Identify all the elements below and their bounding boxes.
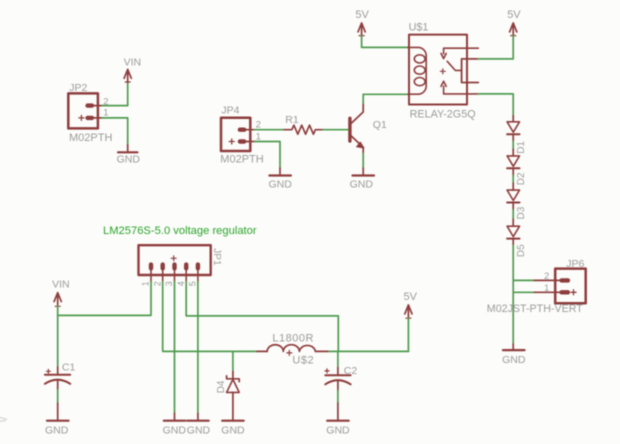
svg-text:VIN: VIN <box>52 278 70 290</box>
resistor R1 <box>284 114 323 134</box>
svg-text:RELAY-2G5Q: RELAY-2G5Q <box>410 109 476 121</box>
wire 5V to relay contact S <box>478 36 513 59</box>
wire 5V to relay coil top <box>362 36 408 48</box>
relay switch blade <box>447 61 461 70</box>
edge artifact (cropped symbol at left border) <box>0 418 7 422</box>
svg-text:JP2: JP2 <box>69 82 87 94</box>
wire JP4 pin2 to R1 <box>255 129 284 131</box>
pin 5 pad of JP1 <box>196 265 200 269</box>
ground below JP2 <box>117 145 141 166</box>
wire inductor to 5V <box>329 350 408 352</box>
wire R1 to Q1 base <box>323 129 348 131</box>
capacitor C2 <box>325 351 357 390</box>
supply VIN (top) <box>124 56 142 82</box>
wire JP4 pin1 to GND <box>255 142 280 169</box>
pin 2 pad of JP1 <box>160 265 164 269</box>
wire Q1 emitter to GND <box>362 154 364 169</box>
ground below C2 <box>326 403 350 437</box>
pin 3 pad of JP1 <box>172 265 176 269</box>
wire JP1 pin1 to VIN <box>58 282 151 316</box>
wire JP1 pin5 to GND <box>197 282 199 413</box>
pin 2 pad of JP4 <box>240 127 244 131</box>
svg-text:1: 1 <box>103 108 108 119</box>
inductor U$2 <box>257 333 329 367</box>
connector JP6 <box>487 258 586 315</box>
ground below C1 <box>45 403 69 437</box>
ground below JP4 <box>269 168 293 191</box>
pin 1 pad of JP2 <box>88 116 92 120</box>
svg-text:GND: GND <box>502 354 526 366</box>
svg-text:GND: GND <box>326 425 350 437</box>
supply 5V (top right) <box>507 9 521 36</box>
supply 5V (top left) <box>355 9 369 36</box>
polarity mark JP6 <box>571 290 576 295</box>
svg-text:L1800R: L1800R <box>272 333 314 345</box>
transistor Q1 <box>350 103 387 154</box>
diode D2 <box>507 156 527 185</box>
svg-text:R1: R1 <box>285 114 299 126</box>
svg-text:GND: GND <box>269 179 293 191</box>
wire VIN to C1 <box>57 306 59 367</box>
regulator header JP1 <box>139 245 223 286</box>
svg-text:C1: C1 <box>62 362 76 374</box>
svg-text:VIN: VIN <box>124 56 142 68</box>
polarity mark JP2 <box>79 115 84 120</box>
polarity mark JP4 <box>229 139 234 144</box>
pin 1 pad of JP1 <box>149 265 153 269</box>
wire JP2 pin1 to GND <box>102 118 127 145</box>
wire D1 to D2 <box>512 134 514 141</box>
origin mark U$2 <box>287 350 292 355</box>
svg-text:4: 4 <box>176 281 186 286</box>
svg-text:2: 2 <box>256 119 261 130</box>
svg-text:Q1: Q1 <box>373 119 387 131</box>
svg-text:GND: GND <box>350 179 374 191</box>
pin 4 pad of JP1 <box>184 265 188 269</box>
pin 2 pad of JP6 <box>562 278 568 282</box>
diode D5 <box>507 226 527 257</box>
svg-text:D4: D4 <box>216 380 227 393</box>
wire 5V down to node <box>407 318 409 351</box>
ground below Q1 <box>350 168 374 191</box>
wire D5 to JP6 pin2 <box>512 239 514 246</box>
capacitor C1 <box>45 362 76 390</box>
svg-text:2: 2 <box>152 281 162 286</box>
origin mark U$1 <box>440 69 445 74</box>
ground below D4 <box>221 421 245 437</box>
relay common bar <box>462 59 479 83</box>
svg-text:M02PTH: M02PTH <box>69 132 112 144</box>
wire JP2 pin2 to VIN <box>102 82 127 105</box>
relay contact P (up arrow) <box>441 81 478 94</box>
svg-text:D3: D3 <box>516 206 527 219</box>
svg-text:JP1: JP1 <box>211 248 222 266</box>
svg-text:JP4: JP4 <box>221 104 239 116</box>
pin 2 pad of JP2 <box>88 103 92 107</box>
svg-text:M02JST-PTH-VERT: M02JST-PTH-VERT <box>487 303 583 315</box>
svg-text:GND: GND <box>117 153 141 165</box>
svg-text:GND: GND <box>187 425 211 437</box>
svg-text:GND: GND <box>221 425 245 437</box>
connector JP4 <box>220 104 263 165</box>
diode D1 <box>507 122 527 154</box>
ground below JP6 <box>502 344 526 366</box>
wire D2 to D3 <box>512 168 514 175</box>
supply 5V (bottom) <box>404 291 418 319</box>
svg-text:M02PTH: M02PTH <box>220 153 263 165</box>
wire relay pole to diode chain <box>478 94 513 116</box>
relay U$1 <box>408 22 478 121</box>
svg-text:GND: GND <box>45 425 69 437</box>
pin 1 pad of JP6 <box>562 290 568 294</box>
wire D3 to D5 <box>512 203 514 210</box>
svg-text:D5: D5 <box>516 244 527 257</box>
svg-text:1: 1 <box>544 283 549 294</box>
ground below JP1 pin5 <box>187 413 211 437</box>
svg-text:GND: GND <box>163 425 187 437</box>
svg-text:5V: 5V <box>404 291 418 303</box>
relay contact O (down arrow) <box>441 48 478 58</box>
svg-text:D2: D2 <box>516 172 527 185</box>
wire Q1 collector to relay coil <box>363 94 408 103</box>
ground below JP1 pin3 <box>163 413 187 437</box>
origin mark JP1 <box>171 256 176 261</box>
svg-text:LM2576S-5.0 voltage regulator: LM2576S-5.0 voltage regulator <box>103 225 257 237</box>
svg-text:2: 2 <box>544 271 549 282</box>
diode D3 <box>507 190 527 219</box>
svg-text:5V: 5V <box>355 9 369 21</box>
wire JP1 pin4 to 5V node <box>186 282 338 352</box>
relay coil <box>408 47 426 94</box>
svg-text:U$2: U$2 <box>292 355 314 367</box>
wire JP1 pin2 to inductor node <box>163 282 257 352</box>
supply VIN (bottom) <box>52 278 70 306</box>
zener diode D4 <box>216 351 239 420</box>
svg-text:3: 3 <box>164 281 174 286</box>
svg-text:5: 5 <box>188 281 198 286</box>
pin 1 pad of JP4 <box>240 139 244 143</box>
svg-text:D1: D1 <box>516 141 527 154</box>
wire JP1 pin3 to GND <box>174 282 176 413</box>
svg-text:5V: 5V <box>507 9 521 21</box>
connector JP2 <box>68 82 112 144</box>
svg-text:1: 1 <box>141 281 151 286</box>
svg-text:U$1: U$1 <box>409 22 429 34</box>
